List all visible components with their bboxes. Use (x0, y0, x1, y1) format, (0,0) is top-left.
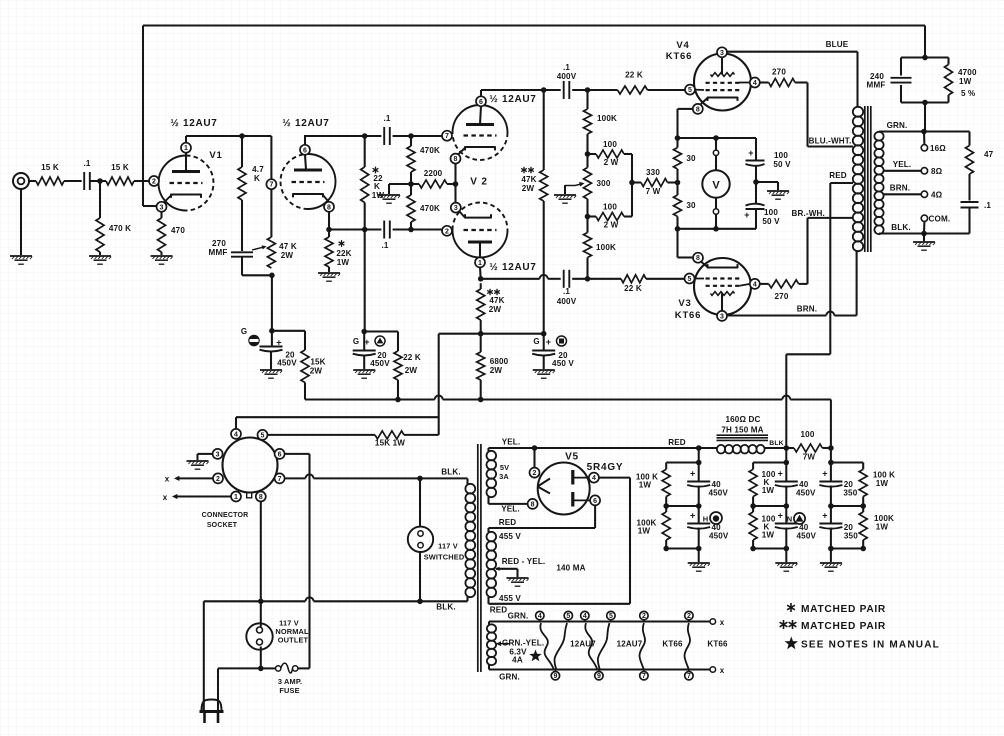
resistor 100K (lower) (586, 217, 588, 233)
wire: pin6 to fuse line (284, 453, 309, 455)
svg-text:BRN.: BRN. (890, 184, 910, 193)
filter choke 160ohm 7H (717, 434, 769, 436)
svg-text:8: 8 (696, 106, 700, 113)
ground (HV center tap) (507, 577, 529, 579)
svg-text:+: + (690, 469, 695, 479)
pin 5 of socket (258, 430, 268, 440)
ground (22K 1W) (318, 272, 340, 274)
capacitor 100/50V (lower) (755, 182, 757, 204)
power transformer 5V winding (487, 451, 497, 461)
svg-text:2: 2 (152, 179, 156, 186)
svg-text:1W: 1W (337, 258, 350, 267)
svg-text:5R4GY: 5R4GY (587, 462, 624, 473)
svg-text:450V: 450V (709, 531, 729, 540)
wire: 22K bottom to bias cap row (364, 230, 366, 332)
secondary top lead GRN (879, 130, 970, 132)
wire: HV bottom to pin4 (487, 597, 489, 604)
svg-text:3A: 3A (499, 472, 509, 481)
node: pin8 junction (326, 227, 332, 233)
svg-text:6: 6 (303, 147, 307, 154)
svg-text:140 MA: 140 MA (556, 564, 585, 573)
svg-text:5: 5 (688, 276, 692, 283)
V2 upper internals (466, 123, 494, 126)
svg-text:2: 2 (687, 613, 691, 620)
wire: pin5 via 15K 1W (267, 434, 375, 436)
resistor 4.7K (241, 136, 243, 167)
wire (99, 252, 101, 255)
svg-text:x: x (163, 493, 168, 502)
wire: top feedback rail (143, 25, 925, 27)
svg-text:455 V: 455 V (499, 532, 521, 541)
svg-text:8Ω: 8Ω (931, 167, 943, 176)
svg-text:MATCHED PAIR: MATCHED PAIR (801, 621, 886, 632)
svg-text:N: N (787, 515, 793, 524)
pin 2 of socket (213, 473, 223, 483)
svg-text:5V: 5V (500, 463, 509, 472)
resistor 47K 2W (feedback pot) (270, 189, 272, 237)
svg-text:15K: 15K (310, 358, 325, 367)
svg-text:3: 3 (720, 313, 724, 320)
svg-text:7: 7 (642, 673, 646, 680)
pin 2 of V2 (442, 226, 452, 236)
terminal COM (921, 215, 927, 221)
svg-text:7: 7 (269, 182, 273, 189)
heater wire V3 2-7 (685, 623, 691, 670)
svg-text:RED: RED (829, 171, 847, 180)
svg-text:+: + (822, 511, 827, 521)
wire: down to bias cap (271, 275, 273, 331)
wire: 6.3V bottom GRN heater rail (488, 665, 490, 670)
wire: feedback drop to output network (924, 26, 926, 58)
ground (767, 190, 789, 192)
svg-text:47: 47 (984, 150, 994, 159)
heater wire V2 5-9 (598, 623, 610, 670)
svg-text:4Ω: 4Ω (931, 191, 943, 200)
wire: V2 pin1 to junction (479, 267, 482, 279)
svg-text:SWITCHED: SWITCHED (424, 553, 465, 562)
capacitor 240 MMF (891, 77, 912, 79)
wire: 2200 to V2 cathodes (454, 163, 456, 184)
svg-text:8: 8 (531, 501, 535, 508)
wire: pin8 down to AC rail (260, 501, 262, 601)
tube V4 KT66 envelope (694, 54, 751, 111)
pin 4 of socket (231, 429, 241, 439)
pin 6 of socket (275, 449, 285, 459)
pin 7 of V2 (442, 131, 452, 141)
resistor 270 (V4 screen) (759, 81, 768, 83)
heater wire V1 4-9 (540, 623, 554, 670)
svg-text:7: 7 (687, 673, 691, 680)
pin 8 of V5 (528, 499, 538, 509)
wire: pin4 to HV bottom (599, 477, 630, 479)
wire: feedback riser (142, 26, 144, 207)
wire (543, 90, 545, 170)
resistor 47K 2W (matched **) (540, 170, 548, 201)
resistor 30 (lower) (676, 183, 678, 196)
wire: to V4 pin 5 (648, 89, 686, 91)
capacitor .1 (input coupling) (83, 172, 85, 190)
svg-text:2W: 2W (522, 184, 535, 193)
power transformer core (477, 444, 479, 672)
svg-text:7: 7 (445, 133, 449, 140)
wiper arrow 47K (252, 247, 265, 250)
pin 3 of V1 (157, 202, 167, 212)
svg-text:YEL.: YEL. (893, 160, 912, 169)
node: V2 plate junction (478, 276, 484, 282)
resistor 100 2W (lower) (588, 215, 597, 217)
svg-text:4: 4 (753, 80, 757, 87)
svg-text:455 V: 455 V (499, 594, 521, 603)
ground (pot wiper) (554, 194, 576, 196)
heater wire V2 4-9 (585, 623, 597, 670)
pin 8 of socket (256, 492, 266, 502)
svg-text:4700: 4700 (958, 68, 977, 77)
117V switched outlet (419, 478, 421, 526)
wire: meter top rail (678, 137, 757, 139)
V2 lower internals (cathode top, plate bottom) (465, 214, 491, 217)
svg-text:47K: 47K (489, 296, 504, 305)
svg-text:7W: 7W (803, 453, 816, 462)
svg-text:470: 470 (171, 226, 185, 235)
capacitor .1 (coupling to V2 lower grid) (383, 221, 385, 239)
node: 22K 1W bottom (362, 227, 368, 233)
svg-text:270: 270 (772, 68, 786, 77)
heater pin 4 (V1) (536, 611, 544, 619)
resistor 30 (upper) (676, 138, 678, 148)
pin 3 of V3 (717, 311, 727, 321)
resistor 330 7W (632, 181, 641, 183)
svg-text:117 V: 117 V (438, 542, 458, 551)
AC plug (202, 700, 222, 712)
svg-text:6: 6 (278, 451, 282, 458)
svg-text:9: 9 (553, 673, 557, 680)
svg-text:270: 270 (775, 292, 789, 301)
svg-text:470K: 470K (420, 146, 440, 155)
svg-text:6: 6 (479, 99, 483, 106)
wire: loop (901, 56, 949, 58)
node: choke output (784, 445, 790, 451)
pin 8 of V2 (451, 154, 461, 164)
resistor 2200 (V2 cathode coupling) (411, 183, 419, 185)
wire (241, 200, 243, 251)
wire: V1 plate pin1 to B+ rail (185, 136, 187, 143)
resistor 470K (input shunt) (96, 218, 104, 252)
svg-text:x: x (720, 666, 725, 675)
svg-text:8: 8 (327, 204, 331, 211)
wire: V1b cathode pin8 down (328, 211, 330, 229)
wire: V4 cathode to 30 ohm chain (678, 108, 694, 110)
svg-text:5: 5 (609, 613, 613, 620)
note: ** matched pair (783, 620, 785, 629)
wire: pin3 to ground (198, 453, 214, 455)
heater pin 7 (V3) (685, 672, 693, 680)
capacitor .1 400V (coupling to V3) (563, 270, 565, 288)
wire: to V3 cathode (676, 229, 678, 258)
svg-text:.1: .1 (381, 241, 388, 250)
svg-text:V3: V3 (678, 298, 691, 309)
pin 8 of V4 (693, 104, 703, 114)
terminal x (heater top) (710, 619, 716, 625)
svg-text:2: 2 (445, 228, 449, 235)
svg-text:BLUE: BLUE (826, 40, 849, 49)
svg-text:RED: RED (668, 438, 686, 447)
svg-text:100: 100 (764, 208, 778, 217)
resistor 22K 1W (inter-stage) (364, 136, 366, 167)
svg-text:MMF: MMF (209, 248, 228, 257)
socket key notch (247, 493, 252, 498)
svg-text:2W: 2W (310, 367, 323, 376)
svg-text:RED - YEL.: RED - YEL. (502, 557, 546, 566)
node: V1 bias junction (269, 328, 275, 334)
tube V2 lower (1/2 12AU7) envelope (453, 230, 508, 258)
heater pin 4 (V2) (581, 611, 589, 619)
heater pin 5 (V1) (564, 611, 572, 619)
svg-text:G: G (533, 337, 539, 346)
svg-text:4.7: 4.7 (252, 165, 264, 174)
capacitor .1 400V (coupling to V4) (563, 81, 565, 99)
hop over B+ dropper (540, 275, 548, 279)
node (585, 87, 591, 93)
svg-text:1: 1 (234, 494, 238, 501)
svg-text:V1: V1 (209, 150, 222, 161)
resistor 15K 1W (375, 431, 404, 439)
svg-text:SOCKET: SOCKET (207, 522, 238, 529)
tube V1 (1/2 12AU7) envelope (159, 156, 187, 211)
svg-text:1W: 1W (762, 486, 775, 495)
capacitor 270 MMF (feedback) (231, 251, 253, 253)
svg-text:7: 7 (278, 476, 282, 483)
heater pin 2 (V4) (640, 611, 648, 619)
svg-text:1W: 1W (876, 479, 889, 488)
svg-text:GRN.: GRN. (508, 612, 529, 621)
pot 300 (balance) (586, 154, 588, 168)
tap RED lead (830, 182, 853, 184)
ground (divider) (378, 194, 400, 196)
svg-text:15 K: 15 K (111, 163, 129, 172)
V1 internals: plate, grid, cathode (172, 170, 200, 173)
pin 4 of V3 (750, 279, 760, 289)
tap YEL / 8 ohm (884, 170, 922, 172)
node (258, 666, 264, 672)
capacitor .1 (coupling V1b to V2) (383, 127, 385, 145)
pin 3 of socket (213, 449, 223, 459)
node (478, 331, 484, 337)
svg-text:GRN.-YEL.: GRN.-YEL. (502, 639, 544, 648)
filter group 3: 2x 100K 1W + 2x 20/350 (830, 448, 832, 463)
resistor 6800 2W (480, 334, 482, 352)
svg-text:1: 1 (478, 260, 482, 267)
svg-text:CONNECTOR: CONNECTOR (202, 512, 249, 519)
wire (755, 138, 757, 160)
node: 100 7W output (828, 445, 834, 451)
pin 2 of V1 (149, 176, 159, 186)
wire: right link (631, 154, 633, 217)
wire: 6.3V top GRN heater rail (488, 622, 490, 625)
node: feedback bottom (922, 100, 928, 106)
wire: to GRN line (924, 103, 926, 132)
wire (572, 278, 621, 280)
svg-text:330: 330 (646, 168, 660, 177)
svg-text:50 V: 50 V (773, 160, 791, 169)
node: second bias junction (361, 329, 367, 335)
svg-text:22K: 22K (336, 249, 351, 258)
svg-text:8: 8 (696, 255, 700, 262)
resistor 100K (upper) (586, 90, 588, 109)
svg-text:.1: .1 (383, 114, 390, 123)
node: 6800 bottom (478, 397, 484, 403)
svg-text:15 K: 15 K (41, 163, 59, 172)
svg-text:3: 3 (160, 204, 164, 211)
tube V1b (1/2 12AU7) envelope (308, 154, 336, 209)
svg-text:.1: .1 (563, 63, 570, 72)
svg-text:G: G (353, 337, 359, 346)
svg-text:1W: 1W (762, 531, 775, 540)
filter group 1: 2x 100K 1W + 2x 40/450V (698, 448, 700, 463)
svg-text:6: 6 (593, 498, 597, 505)
electrolytic 20/450V (bias filter G-square) (543, 334, 545, 350)
resistor 22K 1W (V1b cathode) (328, 230, 330, 238)
wire: pin2 external X (176, 477, 213, 479)
resistor 22K 2W (397, 332, 399, 352)
svg-text:100: 100 (603, 203, 617, 212)
svg-text:450V: 450V (708, 489, 728, 498)
wire: pin2 to 5V top (533, 448, 535, 468)
wire: HV top to pin6 (487, 528, 489, 532)
fuse 3 AMP (261, 667, 276, 669)
wire: to V3 pin 5 (646, 278, 685, 280)
node: B+ rail tap (541, 87, 547, 93)
power transformer primary coil (465, 484, 475, 494)
svg-text:16Ω: 16Ω (930, 144, 946, 153)
tap BRN / 4 ohm (884, 193, 922, 195)
svg-text:4: 4 (592, 475, 596, 482)
svg-text:300: 300 (597, 179, 611, 188)
wire: to BLU.-WHT. tap (795, 81, 808, 83)
wire: bias rail (439, 333, 544, 335)
svg-text:1W: 1W (959, 77, 972, 86)
svg-text:3: 3 (454, 205, 458, 212)
svg-text:.1: .1 (984, 201, 991, 210)
svg-text:4: 4 (583, 613, 587, 620)
heater pin 9 (V1) (551, 672, 559, 680)
pin 6 of V5 (590, 495, 600, 505)
wire (64, 180, 82, 182)
svg-text:YEL.: YEL. (501, 505, 520, 514)
svg-text:x: x (720, 618, 725, 627)
wire: BLUE plate lead (727, 51, 858, 53)
117V normal outlet (260, 601, 262, 626)
wire: pin4 to bias riser (235, 417, 237, 429)
node: feedback top (922, 55, 928, 61)
ground (353, 369, 375, 371)
pin 5 of V3 (685, 274, 695, 284)
svg-text:30: 30 (686, 201, 696, 210)
ground (470) (151, 255, 173, 257)
wire: to V1 grid pin 2 (134, 180, 149, 182)
ground stub (caps midpoint) (756, 181, 778, 183)
svg-text:3 AMP.: 3 AMP. (278, 677, 302, 686)
svg-text:4A: 4A (512, 656, 523, 665)
filter group 2: 2x 100K 1W + 2x 40/450V (785, 448, 787, 463)
heater wire V1 5-9 (554, 623, 567, 670)
svg-text:BLU.-WHT.: BLU.-WHT. (809, 137, 852, 146)
resistor 100 2W (upper) (588, 153, 597, 155)
svg-text:BRN.: BRN. (797, 305, 817, 314)
V5 internals: filament + plates (538, 479, 551, 487)
svg-text:V4: V4 (676, 40, 689, 51)
node (675, 135, 681, 141)
node: 4.7K top (239, 133, 245, 139)
wire: V1 plate to V1b grid (direct coupled) (186, 135, 271, 137)
V4 internals (711, 73, 735, 77)
wire: meter bottom rail (678, 228, 757, 230)
svg-text:8: 8 (454, 156, 458, 163)
wire (543, 201, 545, 334)
wire: AC rail (bottom) (204, 600, 306, 602)
svg-text:9: 9 (597, 673, 601, 680)
node: 470K top (408, 133, 414, 139)
svg-text:+: + (690, 511, 695, 521)
node (675, 180, 681, 186)
svg-text:350: 350 (843, 489, 857, 498)
svg-text:400V: 400V (557, 297, 577, 306)
pin 1 of socket (231, 492, 241, 502)
wire: jack ground stem (20, 189, 22, 255)
heater pin 2 (V3) (685, 611, 693, 619)
svg-text:100: 100 (603, 140, 617, 149)
pin 6 of V1b (300, 145, 310, 155)
svg-text:2: 2 (216, 476, 220, 483)
pin 5 of V4 (685, 85, 695, 95)
wire + ground (secondary common) (923, 234, 925, 242)
tube V3 KT66 envelope (694, 258, 751, 315)
svg-text:3: 3 (720, 50, 724, 57)
wire: V1b plate to rail (304, 136, 306, 145)
node (675, 226, 681, 232)
svg-text:KT66: KT66 (666, 51, 692, 62)
wire: BRN plate lead (727, 314, 827, 316)
svg-text:2200: 2200 (424, 169, 443, 178)
svg-text:5 %: 5 % (961, 89, 975, 98)
connector socket shell (223, 438, 278, 493)
pin 4 of V5 (589, 473, 599, 483)
svg-text:1W: 1W (638, 527, 651, 536)
resistor 470 (V1 cathode) (160, 212, 162, 219)
svg-text:V5: V5 (565, 452, 579, 463)
svg-text:K: K (374, 182, 380, 191)
wire (393, 228, 443, 230)
wire: pin7 to transformer primary (BLK) (284, 477, 305, 479)
svg-text:.1: .1 (563, 287, 570, 296)
resistor 47 (zobel) (968, 132, 970, 146)
svg-text:K: K (254, 174, 260, 183)
svg-text:5: 5 (261, 432, 265, 439)
svg-text:2W: 2W (490, 366, 503, 375)
svg-text:47K: 47K (521, 175, 536, 184)
pin 1 of V1 (181, 143, 191, 153)
svg-text:100: 100 (774, 151, 788, 160)
svg-text:½ 12AU7: ½ 12AU7 (170, 118, 217, 129)
resistor 100 7W (786, 447, 794, 449)
ground stub (V2 grid divider) (389, 183, 411, 185)
svg-text:BLK.: BLK. (891, 223, 910, 232)
svg-text:470 K: 470 K (109, 224, 131, 233)
wire: V1 cathode pin3 to feedback node (143, 205, 157, 207)
resistor 15K 2W (304, 331, 306, 350)
svg-text:+: + (822, 469, 827, 479)
terminal x (heater bottom) (710, 667, 716, 673)
svg-text:470K: 470K (420, 204, 440, 213)
